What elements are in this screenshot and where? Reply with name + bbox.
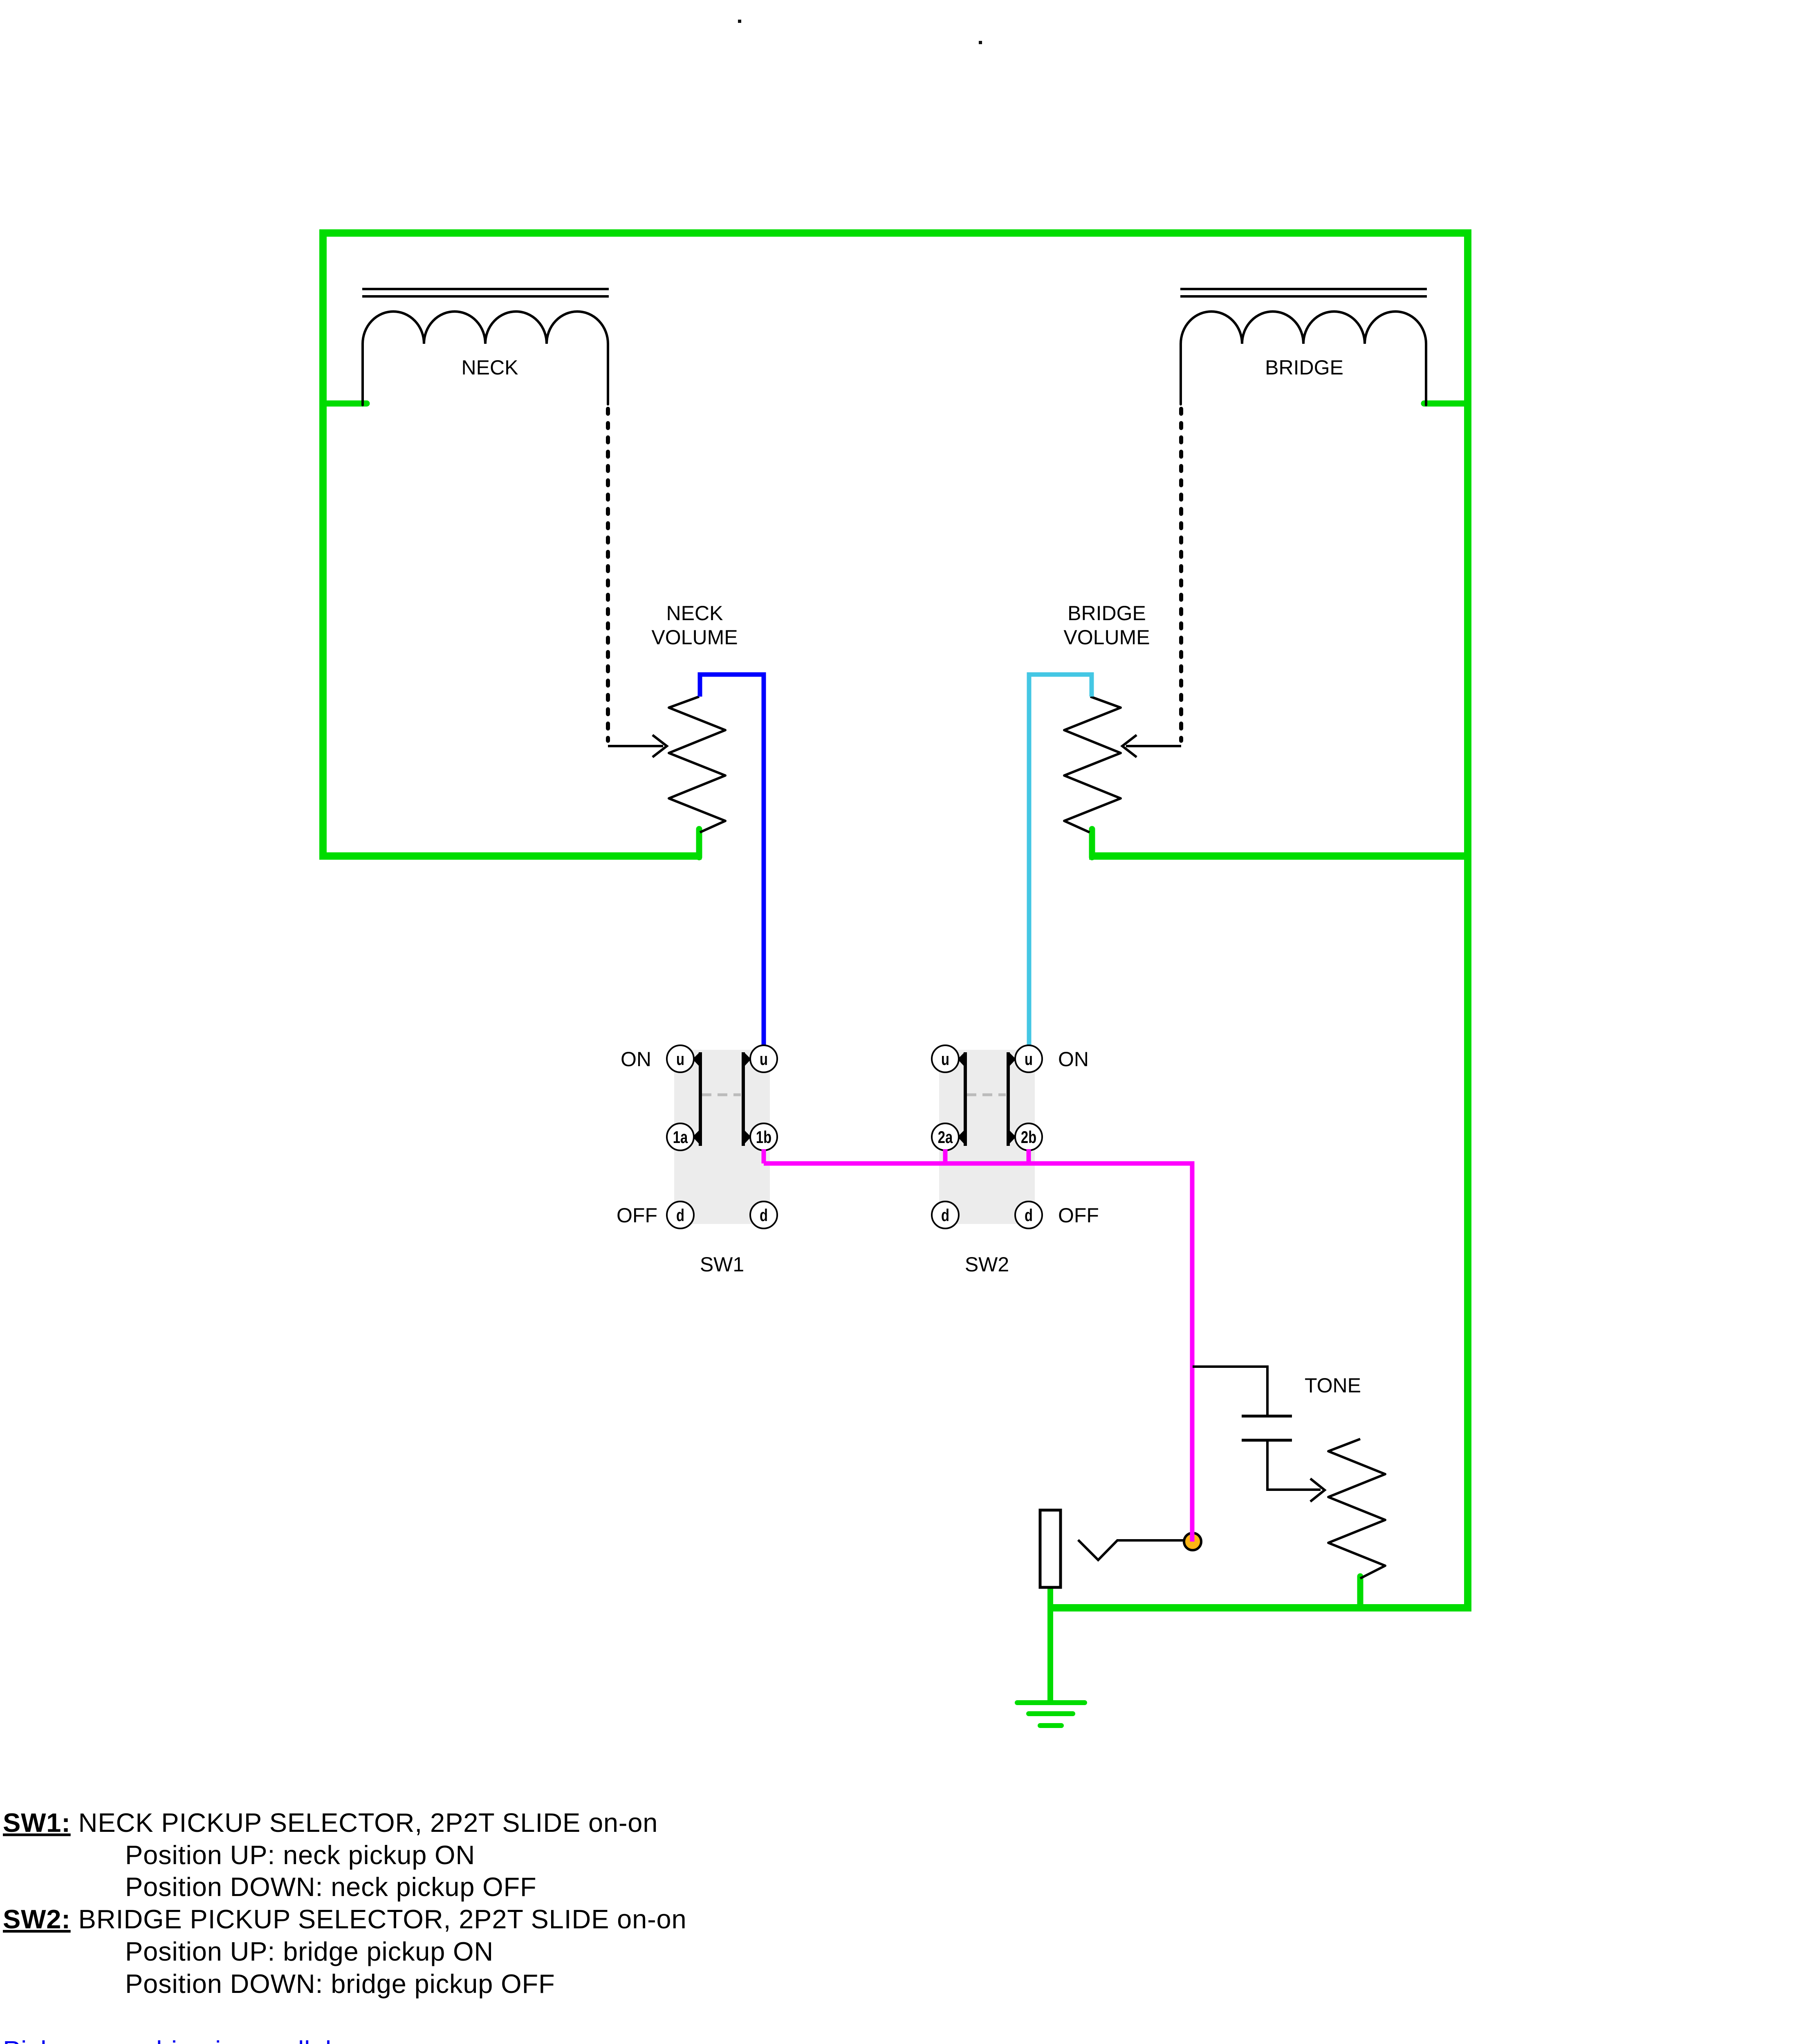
potentiometer TONE xyxy=(1328,1439,1385,1578)
wire magenta into hot node xyxy=(1190,1529,1195,1542)
wire green jack to ground xyxy=(1047,1587,1053,1702)
switch SW1 terminal d right xyxy=(750,1201,777,1228)
wire green neck coil stub xyxy=(323,401,367,407)
wiper arrow NECK VOLUME xyxy=(608,735,667,757)
wire cap to tone wiper arrow xyxy=(1267,1441,1325,1502)
node output hot xyxy=(1184,1533,1201,1550)
ground symbol xyxy=(1017,1703,1085,1726)
potentiometer NECK VOLUME xyxy=(669,697,725,832)
wire magenta SW2 2a stub xyxy=(943,1149,948,1163)
svg-text:OFF: OFF xyxy=(617,1204,657,1227)
svg-text:NECK: NECK xyxy=(666,602,723,625)
wire magenta SW1 1b stub xyxy=(762,1149,766,1163)
switch SW2 contact arrows xyxy=(958,1052,1016,1144)
svg-text:Position UP: neck pickup ON: Position UP: neck pickup ON xyxy=(125,1840,475,1870)
svg-text:u: u xyxy=(760,1049,768,1069)
svg-text:Position DOWN: neck pickup OFF: Position DOWN: neck pickup OFF xyxy=(125,1872,537,1902)
switch SW1 body xyxy=(674,1050,770,1224)
switch SW2 body xyxy=(939,1050,1035,1224)
speck dot 2 xyxy=(979,41,982,44)
switch SW1 terminal u right xyxy=(750,1045,777,1072)
wire blue neck volume to SW1 xyxy=(700,675,764,1054)
wire magenta output bus xyxy=(764,1163,1192,1540)
capacitor TONE plates xyxy=(1242,1416,1292,1440)
switch SW1 terminal 1a xyxy=(667,1123,694,1150)
pickup coil NECK winding xyxy=(363,312,608,405)
svg-text:u: u xyxy=(941,1049,949,1069)
switch SW2 pole link dashed xyxy=(967,1094,1006,1096)
switch SW1 terminal u left xyxy=(667,1045,694,1072)
switch SW2 pole bar left xyxy=(964,1052,967,1146)
wiper arrow BRIDGE VOLUME xyxy=(1122,735,1181,757)
svg-text:d: d xyxy=(941,1206,949,1225)
pickup coil BRIDGE core lines xyxy=(1180,289,1427,296)
svg-text:SW1: NECK PICKUP SELECTOR, 2P2: SW1: NECK PICKUP SELECTOR, 2P2T SLIDE on… xyxy=(3,1808,658,1838)
wire cyan bridge volume to SW2 xyxy=(1029,675,1092,1054)
svg-text:Position DOWN: bridge pickup O: Position DOWN: bridge pickup OFF xyxy=(125,1969,555,1999)
output jack J1 sleeve xyxy=(1040,1510,1061,1587)
svg-text:d: d xyxy=(1025,1206,1033,1225)
svg-text:BRIDGE: BRIDGE xyxy=(1067,602,1146,625)
output jack J1 tip contact xyxy=(1078,1540,1184,1560)
wire dashed bridge coil to volume wiper xyxy=(1179,409,1183,741)
switch SW1 contact arrows xyxy=(693,1052,751,1144)
svg-text:ON: ON xyxy=(621,1048,651,1071)
svg-text:SW1: SW1 xyxy=(700,1253,744,1276)
switch SW2 terminal 2b xyxy=(1015,1123,1042,1150)
switch SW1 terminal 1b xyxy=(750,1123,777,1150)
wire green neck volume stub xyxy=(696,829,702,857)
switch SW1 pole link dashed xyxy=(702,1094,741,1096)
svg-text:VOLUME: VOLUME xyxy=(1063,626,1150,649)
wire green bridge volume bottom xyxy=(1089,852,1468,860)
wire green ground bus frame xyxy=(323,233,1468,1608)
svg-text:NECK: NECK xyxy=(462,356,518,379)
wire green tone pot stub xyxy=(1357,1576,1363,1608)
switch SW1 pole bar right xyxy=(742,1052,745,1146)
svg-text:1b: 1b xyxy=(756,1127,771,1147)
svg-text:2b: 2b xyxy=(1021,1127,1036,1147)
svg-text:Position UP: bridge pickup ON: Position UP: bridge pickup ON xyxy=(125,1936,493,1966)
switch SW1 pole bar left xyxy=(699,1052,702,1146)
wire green bridge coil stub xyxy=(1424,401,1468,407)
svg-text:u: u xyxy=(676,1049,684,1069)
svg-text:OFF: OFF xyxy=(1058,1204,1099,1227)
wire dashed neck coil to volume wiper xyxy=(606,409,610,741)
svg-text:TONE: TONE xyxy=(1305,1374,1361,1397)
svg-text:u: u xyxy=(1025,1049,1033,1069)
svg-text:BRIDGE: BRIDGE xyxy=(1265,356,1343,379)
wire magenta SW2 2b stub xyxy=(1027,1149,1031,1163)
wire green bridge volume stub xyxy=(1089,829,1095,857)
svg-text:SW2: SW2 xyxy=(965,1253,1009,1276)
switch SW1 terminal d left xyxy=(667,1201,694,1228)
switch SW2 terminal d right xyxy=(1015,1201,1042,1228)
switch SW2 pole bar right xyxy=(1007,1052,1010,1146)
svg-text:SW2: BRIDGE PICKUP SELECTOR, 2: SW2: BRIDGE PICKUP SELECTOR, 2P2T SLIDE … xyxy=(3,1904,686,1934)
svg-text:d: d xyxy=(760,1206,768,1225)
pickup coil BRIDGE winding xyxy=(1181,312,1426,405)
potentiometer BRIDGE VOLUME xyxy=(1064,697,1121,832)
switch SW2 terminal 2a xyxy=(932,1123,959,1150)
svg-text:VOLUME: VOLUME xyxy=(651,626,738,649)
switch SW2 terminal u left xyxy=(932,1045,959,1072)
svg-text:2a: 2a xyxy=(938,1127,953,1147)
svg-text:ON: ON xyxy=(1058,1048,1089,1071)
svg-text:Pickups combine in parallel.: Pickups combine in parallel. xyxy=(3,2035,339,2044)
svg-text:1a: 1a xyxy=(673,1127,688,1147)
svg-text:d: d xyxy=(676,1206,684,1225)
pickup coil NECK core lines xyxy=(362,289,609,296)
wire tone cap tap xyxy=(1193,1367,1267,1415)
speck dot 1 xyxy=(738,20,741,23)
switch SW2 terminal d left xyxy=(932,1201,959,1228)
switch SW2 terminal u right xyxy=(1015,1045,1042,1072)
